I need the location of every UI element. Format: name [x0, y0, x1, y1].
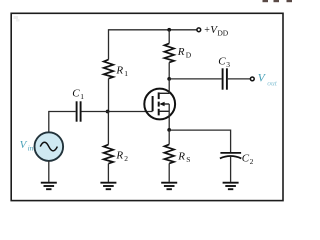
wire: gate wire from C1 to MOSFET gate bar [81, 111, 153, 113]
wire: VDD rail from R1 top corner to VDD terminal [109, 29, 197, 31]
source Vin circle [35, 132, 64, 161]
node: VDD rail junction dot above RD [167, 28, 171, 32]
cropped page text fragments at top edge [263, 0, 293, 2]
wire: RD top lead [168, 30, 170, 44]
svg-text:C: C [72, 87, 80, 99]
svg-text:R: R [177, 46, 185, 58]
MOSFET Q1 source internal stub [159, 110, 170, 112]
wire: R2 top lead from gate node down [107, 112, 109, 145]
MOSFET Q1 channel segment middle [158, 102, 160, 107]
wire: C3 to Vout terminal [228, 78, 251, 80]
ground under Vin [41, 183, 57, 190]
node: source junction dot [167, 128, 171, 132]
node: gate junction dot [106, 110, 110, 114]
wire: R1 top lead from rail corner down [108, 29, 110, 59]
MOSFET Q1 channel segment top [158, 92, 160, 99]
wire: drain wire from drain node to C3 [169, 78, 222, 80]
svg-text:S: S [186, 155, 190, 164]
svg-text:2: 2 [250, 157, 254, 166]
MOSFET Q1 channel segment bottom [158, 109, 160, 116]
svg-text:C: C [242, 152, 250, 164]
svg-text:3: 3 [226, 60, 230, 69]
svg-text:R: R [177, 150, 185, 162]
MOSFET Q1 body circle [144, 89, 175, 120]
wire: C2 bottom lead to ground [230, 156, 232, 182]
capacitor C2 curved plate [220, 156, 241, 158]
terminal Vout open circle [250, 77, 254, 81]
ground under C2 [223, 183, 239, 190]
ground under RS [161, 183, 177, 190]
capacitor C3 plates [223, 68, 227, 89]
svg-text:in: in [28, 144, 34, 153]
svg-text:V: V [20, 139, 28, 151]
figure border box [11, 13, 283, 200]
wire: Vin top lead [48, 111, 50, 132]
svg-text:1: 1 [80, 92, 84, 101]
sine wave inside Vin [40, 142, 57, 151]
svg-text:C: C [218, 55, 226, 67]
svg-text:DD: DD [217, 29, 228, 38]
svg-text:V: V [258, 72, 267, 84]
label C2 [242, 152, 254, 166]
label RS [177, 150, 190, 164]
resistor R2 [104, 145, 114, 164]
MOSFET Q1 gate bar [152, 96, 154, 111]
svg-text:1: 1 [124, 69, 128, 78]
node: drain junction dot [167, 77, 171, 81]
resistor RD [164, 43, 174, 62]
terminal +VDD open circle [197, 28, 201, 32]
label RD [177, 46, 192, 60]
wire: RS top lead [168, 130, 170, 145]
svg-text:R: R [115, 64, 123, 76]
label Vin [20, 139, 34, 153]
svg-text:out: out [267, 78, 278, 87]
wire: RD bottom lead to drain node [168, 62, 170, 79]
wire: C2 top lead from source wire corner [230, 130, 232, 153]
wire: drain vertical into MOSFET [168, 79, 170, 94]
wire: RS bottom lead to ground [168, 163, 170, 182]
label C3 [218, 55, 230, 69]
svg-text:D: D [186, 51, 192, 60]
label R2 [115, 149, 128, 163]
label R1 [115, 64, 128, 78]
MOSFET Q1 substrate arrow [164, 103, 169, 105]
faint watermark smudge [14, 16, 19, 19]
svg-text:R: R [115, 149, 123, 161]
wire: Vin bottom lead to ground [48, 161, 50, 182]
wire: R1 bottom lead down to gate node [108, 79, 110, 112]
label C1 [72, 87, 84, 101]
MOSFET Q1 drain internal stub [159, 92, 170, 94]
label +VDD [204, 24, 229, 38]
svg-text:2: 2 [124, 154, 128, 163]
wire: source vertical from arrow junction down to source node [168, 104, 170, 130]
wire: from Vin to C1 left plate [49, 111, 76, 113]
resistor RS [164, 144, 174, 163]
capacitor C1 plates [77, 101, 81, 121]
label Vout [258, 72, 278, 87]
resistor R1 [104, 60, 114, 79]
wire: R2 bottom lead to ground [107, 164, 109, 182]
capacitor C2 top plate [220, 152, 241, 154]
wire: source node to C2 [169, 129, 230, 131]
ground under R2 [100, 183, 116, 190]
